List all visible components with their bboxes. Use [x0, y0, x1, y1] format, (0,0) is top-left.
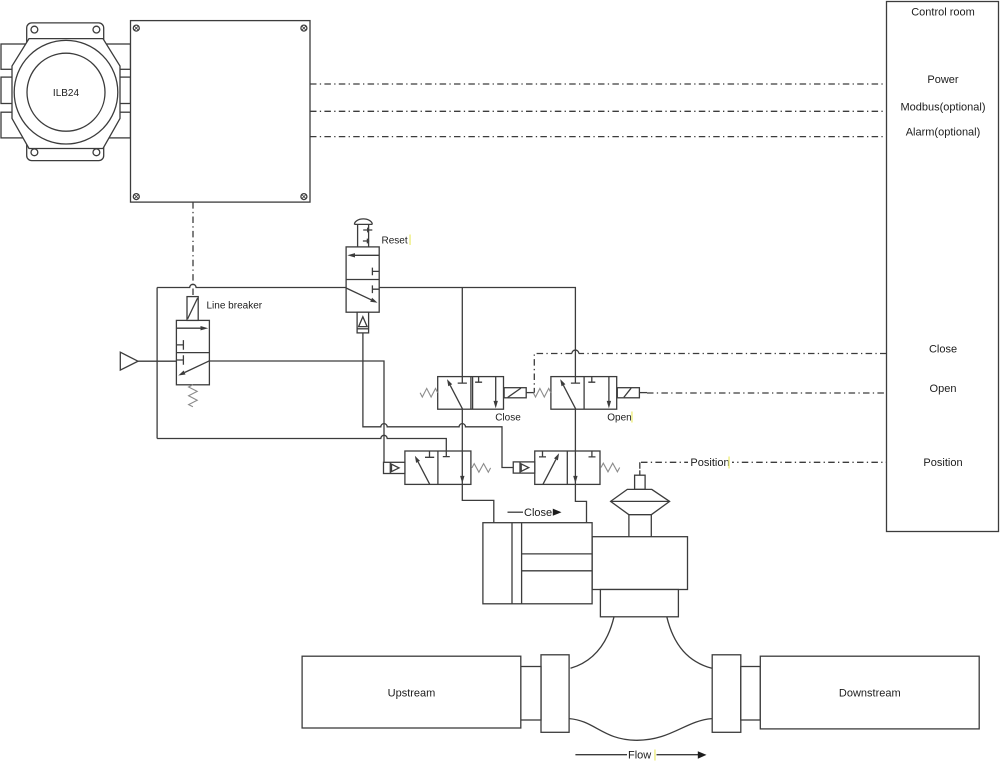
V6 cell divider: [566, 451, 568, 484]
junction box: [131, 21, 311, 203]
V5 wire close re-enter: [461, 451, 463, 484]
V6 return spring: [601, 463, 620, 472]
downstream pipe box: [760, 656, 979, 729]
flange right: [712, 655, 741, 733]
flow arrow: [575, 750, 706, 762]
valve V3 close solenoid (3/2): [420, 377, 534, 424]
mounting fin bottom: [1, 112, 131, 138]
actuator stem lower: [629, 515, 651, 537]
wire line breaker output to pilot of bottom-left valve: [209, 361, 384, 462]
valve V4 open solenoid (3/2): [533, 377, 647, 424]
label -Close-> (travel direction): [508, 507, 562, 519]
pipe connector left: [521, 667, 541, 721]
V5 return spring: [472, 464, 491, 473]
svg-text:Line breaker: Line breaker: [207, 301, 263, 312]
V4 cell divider: [583, 377, 585, 410]
junction box screw bottom-left: [133, 194, 139, 200]
plate screw hole top-left: [31, 26, 38, 33]
signal line Modbus (dash-dot): [310, 110, 887, 112]
mounting fin top: [1, 44, 131, 69]
diaphragm actuator stem top: [635, 475, 646, 489]
wire main bus with hop over dash-dot drop: [157, 284, 346, 287]
valve V6 bottom-middle pilot valve (3/2): [513, 451, 619, 484]
wire bus reset to open valve corner: [379, 288, 575, 377]
V1 top-cell blocked port: [372, 268, 379, 276]
svg-text:Alarm(optional): Alarm(optional): [906, 127, 981, 139]
V2 breaker actuator: [187, 297, 198, 321]
position feedback solid stub: [639, 470, 641, 475]
valve body neck curve right: [667, 617, 712, 669]
V5 body: [405, 451, 471, 484]
wire supply to line breaker: [138, 360, 176, 362]
V5 left-cell blocked port: [425, 451, 434, 457]
signal line Close with hop over pilot wire (dash-dot): [534, 354, 886, 393]
V6 wire open re-enter: [574, 451, 576, 484]
V3 right-cell exhaust arrow: [495, 377, 497, 401]
wire bus tap down to close valve: [461, 288, 463, 377]
signal line Power (dash-dot): [310, 83, 887, 85]
signal line Position (dash-dot): [640, 462, 887, 470]
V4 right-cell exhaust arrow: [608, 377, 610, 401]
junction box screw bottom-right: [301, 194, 307, 200]
V1 exhaust box: [357, 312, 369, 333]
svg-text:Position: Position: [923, 457, 962, 469]
back plate: [27, 23, 104, 161]
V5 through-flow arrow: [460, 476, 464, 484]
V6 pilot box: [513, 462, 535, 473]
svg-text:ILB24: ILB24: [53, 88, 80, 99]
V6 left-cell blocked port: [539, 451, 546, 457]
signal line Alarm (dash-dot): [310, 136, 887, 138]
label Position (on line): [688, 456, 732, 470]
supply source triangle: [120, 352, 138, 370]
V5 right-cell blocked port: [443, 451, 450, 457]
V1 detent mark upper: [363, 228, 372, 233]
V3 solenoid: [504, 388, 526, 398]
valve V1 reset (manual push-button 3/2): [346, 219, 411, 333]
V6 left-cell diagonal flow path: [543, 459, 556, 484]
cursor artifact after Open: [631, 412, 633, 423]
svg-text:Power: Power: [927, 74, 959, 86]
svg-text:Close: Close: [495, 413, 521, 424]
junction box screw top-left: [133, 25, 139, 31]
plate screw hole bottom-left: [31, 149, 38, 156]
octagonal bezel: [12, 39, 120, 149]
svg-text:Modbus(optional): Modbus(optional): [901, 101, 986, 113]
outer dial circle: [14, 40, 118, 144]
V4 right-cell blocked port: [588, 377, 595, 383]
svg-text:Position: Position: [690, 457, 729, 469]
control room box: [887, 2, 999, 532]
V1 bottom-cell blocked port: [372, 285, 379, 293]
flange left: [541, 655, 569, 733]
V6 through-flow arrow: [573, 476, 577, 484]
cylinder piston: [512, 523, 522, 604]
V6 right-cell blocked port: [589, 451, 596, 457]
V3 left-cell diagonal flow path: [450, 385, 462, 409]
V1 push button stem: [358, 225, 369, 247]
hydraulic cylinder: [483, 523, 592, 604]
V1 top-cell flow arrow: [351, 254, 379, 256]
actuator housing: [592, 537, 687, 590]
valve body bottom bowl: [569, 719, 712, 741]
wire left boundary vertical: [156, 288, 158, 439]
pipe connector right: [741, 667, 761, 721]
wire close valve down through bottom-left valve: [462, 409, 494, 523]
plate screw hole bottom-right: [93, 149, 100, 156]
diaphragm midline: [611, 500, 670, 502]
V4 body: [551, 377, 617, 410]
V3 return spring: [420, 388, 438, 397]
piston rod: [522, 554, 593, 571]
V1 body: [346, 247, 379, 312]
svg-text:Flow: Flow: [628, 750, 651, 762]
cursor artifact after Reset: [409, 235, 411, 246]
wire H1 reset exhaust to pilot of bottom-middle valve (hops at 384 and 462.3): [363, 333, 513, 468]
V2 cell divider: [176, 352, 209, 354]
ILB24 transmitter assembly: [1, 23, 131, 161]
svg-text:Upstream: Upstream: [388, 688, 436, 700]
V2 bottom-cell diagonal flow path: [185, 361, 210, 373]
V2 bottom-cell blocked port: [176, 355, 183, 365]
V3 cell divider: [471, 377, 473, 410]
svg-text:Close: Close: [929, 344, 957, 356]
V2 return spring: [189, 385, 198, 407]
V6 body: [535, 451, 600, 484]
wire open valve down through bottom-middle valve: [575, 409, 586, 522]
V2 body: [176, 320, 209, 384]
V5 pilot box: [384, 462, 405, 473]
V1 push button cap: [354, 219, 372, 225]
V1 cell divider: [346, 279, 379, 281]
junction box screw top-right: [301, 25, 307, 31]
svg-text:Close: Close: [524, 507, 552, 519]
V1 detent mark lower: [363, 239, 369, 244]
signal line Open (dash-dot): [647, 392, 887, 394]
svg-text:Open: Open: [930, 383, 957, 395]
V3 solenoid stub: [526, 392, 534, 394]
valve V5 bottom-left pilot valve (3/2): [384, 451, 491, 484]
V4 return spring: [533, 388, 551, 397]
signal line junction box to line breaker (dash-dot): [192, 202, 194, 297]
upstream pipe box: [302, 656, 521, 728]
svg-text:Open: Open: [607, 413, 631, 424]
valve V2 line breaker (3/2): [176, 297, 262, 407]
svg-text:Control room: Control room: [911, 7, 975, 19]
V3 right-cell blocked port: [475, 377, 482, 383]
valve body neck curve left: [571, 617, 615, 669]
mounting fin middle: [1, 77, 131, 103]
V4 solenoid: [617, 388, 639, 398]
V4 left-cell diagonal flow path: [563, 385, 575, 409]
wire H2 boundary to bottom-left valve port (hop at 384): [157, 435, 446, 451]
V2 top-cell flow arrow: [176, 327, 204, 329]
V5 cell divider: [437, 451, 439, 484]
diaphragm actuator hexagon: [611, 489, 670, 514]
svg-text:Reset: Reset: [382, 236, 408, 247]
V1 bottom-cell diagonal flow path: [346, 288, 371, 300]
V3 left-cell blocked port: [458, 377, 467, 384]
inner dial circle: [27, 53, 105, 131]
svg-text:Downstream: Downstream: [839, 688, 901, 700]
V3 body: [438, 377, 504, 410]
V4 left-cell blocked port: [571, 377, 580, 384]
plate screw hole top-right: [93, 26, 100, 33]
V4 solenoid stub: [639, 392, 647, 394]
V2 top-cell blocked port: [176, 340, 183, 350]
V5 left-cell diagonal flow path: [418, 462, 430, 485]
bonnet adapter: [600, 590, 678, 617]
